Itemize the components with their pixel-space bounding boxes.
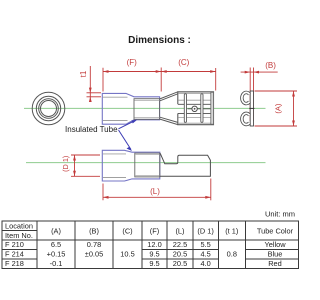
svg-text:Blue: Blue xyxy=(268,250,283,259)
svg-text:(L): (L) xyxy=(175,227,184,236)
dimension B xyxy=(241,68,278,122)
receptacle inner edge lines xyxy=(179,93,211,123)
svg-text:F 214: F 214 xyxy=(5,250,24,259)
svg-text:F 218: F 218 xyxy=(5,259,24,268)
svg-text:9.5: 9.5 xyxy=(149,259,159,268)
svg-text:22.5: 22.5 xyxy=(173,240,187,249)
svg-text:(C): (C) xyxy=(178,58,189,67)
centerline side view xyxy=(26,162,266,164)
svg-text:F 210: F 210 xyxy=(5,240,24,249)
svg-text:9.5: 9.5 xyxy=(149,250,159,259)
svg-text:(A): (A) xyxy=(273,103,282,114)
table grid xyxy=(2,221,298,269)
svg-text:Unit: mm: Unit: mm xyxy=(265,210,295,219)
insulated tube top view xyxy=(102,93,159,124)
receptacle flap lines xyxy=(178,104,211,113)
svg-text:4.0: 4.0 xyxy=(200,259,210,268)
right side view top hook xyxy=(242,92,250,103)
dimension F and C xyxy=(103,68,216,92)
right side view bar xyxy=(250,91,253,126)
funnel transition xyxy=(160,92,178,125)
side view barrel xyxy=(135,153,160,177)
svg-text:0.78: 0.78 xyxy=(87,240,101,249)
receptacle right seam band xyxy=(211,92,214,124)
receptacle slots xyxy=(184,94,203,123)
dimension t1 xyxy=(87,66,102,102)
side view tube inner lines xyxy=(103,154,126,178)
svg-text:(F): (F) xyxy=(150,227,159,236)
svg-text:4.5: 4.5 xyxy=(200,250,210,259)
side view tube xyxy=(102,150,160,181)
table data text xyxy=(5,240,286,268)
svg-text:(D 1): (D 1) xyxy=(197,227,213,236)
receptacle body top view xyxy=(178,92,214,125)
svg-text:10.5: 10.5 xyxy=(120,250,134,259)
svg-text:Dimensions :: Dimensions : xyxy=(128,35,191,46)
svg-text:t1: t1 xyxy=(79,70,88,77)
svg-text:20.5: 20.5 xyxy=(173,259,187,268)
svg-text:12.0: 12.0 xyxy=(147,240,161,249)
svg-text:-0.1: -0.1 xyxy=(50,259,63,268)
svg-text:(D 1): (D 1) xyxy=(61,156,70,172)
svg-text:Yellow: Yellow xyxy=(264,240,286,249)
wire barrel inside tube top view xyxy=(134,99,160,120)
insulated tube label xyxy=(65,125,118,134)
leader arrows xyxy=(119,121,136,150)
table header text xyxy=(5,222,294,241)
tube inner wall lines top view xyxy=(103,97,128,120)
right side view bottom hook xyxy=(242,113,250,124)
receptacle hole xyxy=(192,106,197,111)
svg-text:0.8: 0.8 xyxy=(227,250,237,259)
svg-text:5.5: 5.5 xyxy=(200,240,210,249)
svg-text:(F): (F) xyxy=(127,58,138,67)
svg-text:20.5: 20.5 xyxy=(173,250,187,259)
svg-text:Red: Red xyxy=(268,259,282,268)
centerline top view xyxy=(24,107,266,109)
side view barrel inner lines xyxy=(135,154,159,175)
dimension A xyxy=(255,91,298,126)
svg-text:Insulated Tube: Insulated Tube xyxy=(65,125,118,134)
end view circles xyxy=(32,92,65,125)
svg-text:(t 1): (t 1) xyxy=(225,227,238,236)
svg-text:+0.15: +0.15 xyxy=(47,250,66,259)
svg-text:±0.05: ±0.05 xyxy=(85,250,103,259)
svg-text:(A): (A) xyxy=(51,227,61,236)
svg-text:(B): (B) xyxy=(265,61,276,70)
svg-text:Tube Color: Tube Color xyxy=(257,227,294,236)
svg-text:Location: Location xyxy=(5,222,33,231)
centerline tick on bar xyxy=(249,107,254,109)
svg-text:(B): (B) xyxy=(89,227,99,236)
dimension L xyxy=(103,179,211,201)
svg-text:Item No.: Item No. xyxy=(5,231,33,240)
dimension D1 xyxy=(71,155,100,176)
side view tongue profile xyxy=(160,153,211,176)
svg-text:(C): (C) xyxy=(122,227,132,236)
svg-text:6.5: 6.5 xyxy=(51,240,61,249)
svg-text:(L): (L) xyxy=(150,187,160,196)
barrel inner lines top view xyxy=(135,100,160,117)
